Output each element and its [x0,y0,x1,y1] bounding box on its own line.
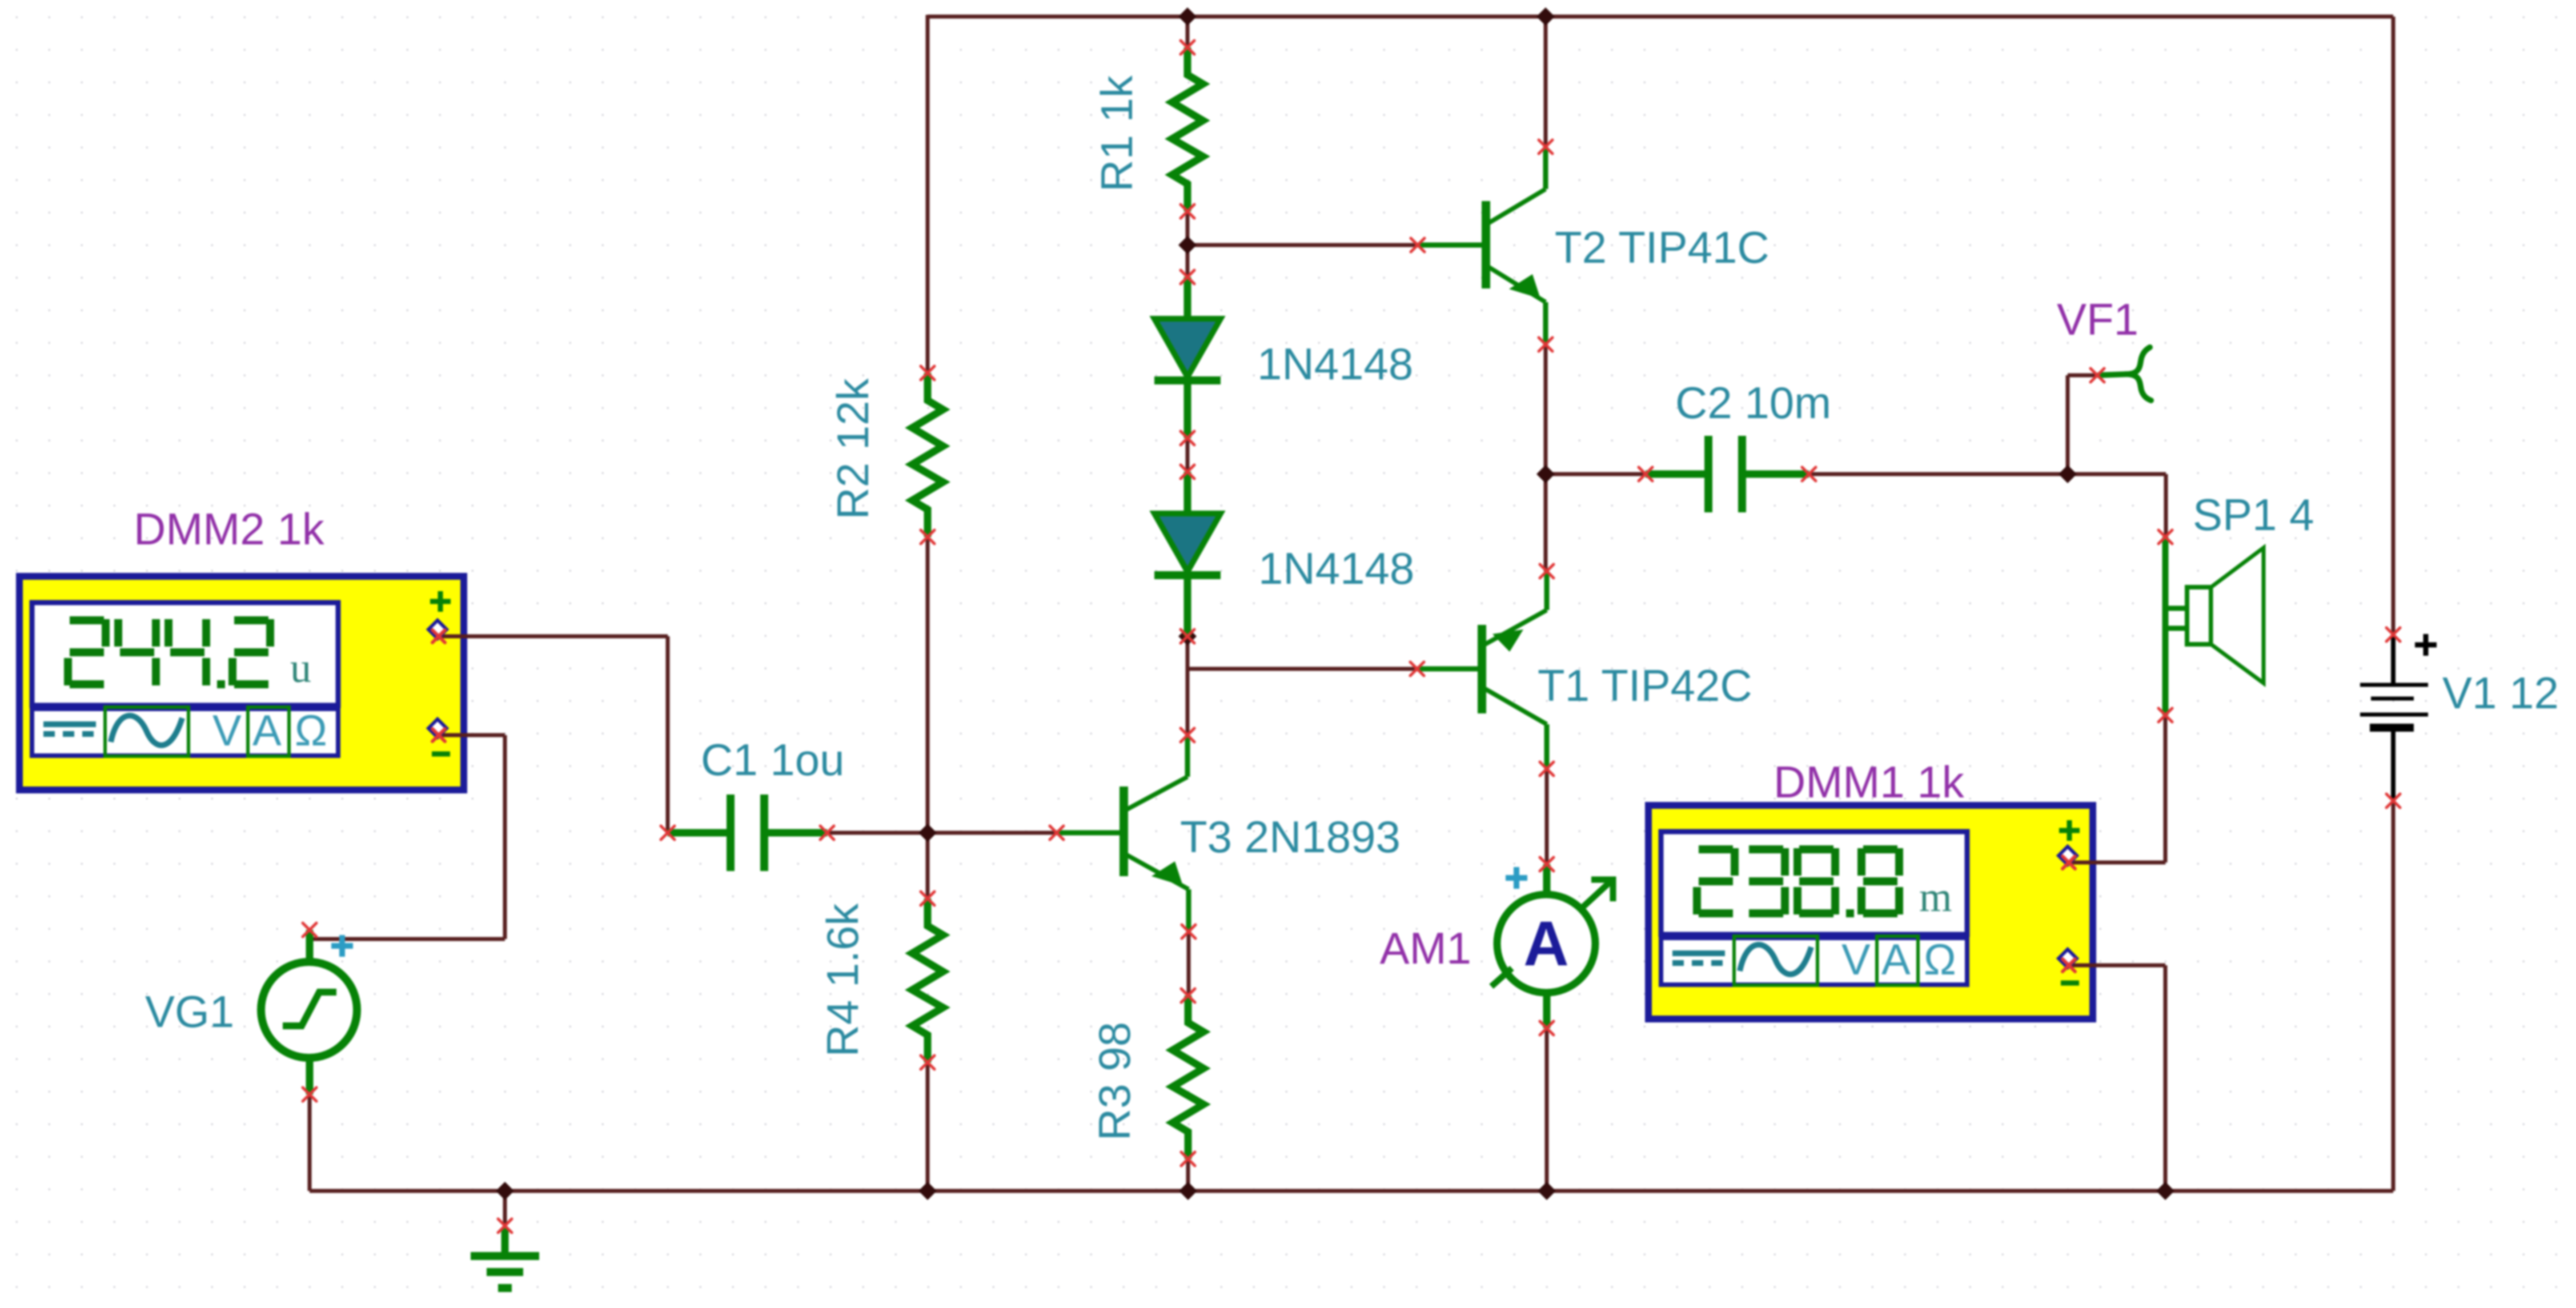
wire C1 to base node [827,831,928,835]
label R1 value [1092,75,1142,192]
label R4 value [817,903,868,1057]
svg-text:R4 1.6k: R4 1.6k [817,903,868,1057]
node ground rail / R4 [918,1182,937,1200]
wire VF1 stub [2068,375,2097,474]
node C2 wire / VF1 [2059,465,2077,483]
label DMM2 [134,504,325,554]
wire R1 to D1 node [1186,211,1190,277]
node C1 / R2 / R4 / T3 base [918,824,937,842]
label VF1 [2057,294,2138,344]
label T3 value [1180,812,1401,862]
wire V1 to bottom rail [2392,801,2396,1191]
svg-text:C1 1ou: C1 1ou [701,735,845,785]
battery V1 [2360,628,2437,808]
wire ground stub [503,1191,507,1225]
svg-text:C2 10m: C2 10m [1675,378,1831,428]
diode D2 1N4148 [1154,465,1221,643]
transistor T3 2N1893 [1050,728,1195,938]
svg-text:m: m [1919,874,1952,921]
label C2 value [1675,378,1831,428]
node top rail / T2 collector [1536,7,1555,26]
wire C2 to speaker [1809,474,2166,537]
svg-text:Ω: Ω [295,707,327,755]
node output / C2 [1536,465,1555,483]
ammeter AM1 [1491,857,1613,1035]
wire node to T2 base [1187,243,1418,247]
diode D1 1N4148 [1154,270,1221,445]
label C1 value [701,735,845,785]
transistor T2 TIP41C [1411,140,1552,351]
wire speaker to DMM1 plus [2075,715,2165,862]
svg-text:R2 12k: R2 12k [828,378,878,519]
wire VG1 to bottom rail [308,1094,312,1191]
wire bias node to T3 base [928,831,1057,835]
wire DMM2 minus to VG1 [310,735,505,939]
resistor R3 [1173,989,1203,1166]
label V1 value [2442,668,2559,718]
node ground rail / AM1 [1538,1182,1556,1200]
speaker SP1 [2158,530,2264,722]
wire R3 to bottom rail [1186,1159,1190,1191]
svg-text:V: V [1841,936,1871,984]
multimeter DMM2 [19,576,474,790]
wire top rail to R2 [926,15,930,373]
wire DMM2 plus to C1 [439,636,668,833]
capacitor C2 [1639,436,1816,512]
ground [471,1219,539,1288]
transistor T1 TIP42C [1410,564,1554,776]
wire R2 to R4 (bias node) [926,537,930,898]
label T2 value [1555,222,1770,272]
resistor R4 [912,892,943,1069]
svg-text:A: A [1881,936,1911,984]
svg-text:1N4148: 1N4148 [1257,339,1413,389]
multimeter DMM1 [1648,805,2102,1019]
label VG1 [145,986,234,1037]
voltage pin VF1 [2091,347,2151,400]
node top rail / R1 [1178,7,1197,26]
label T1 value [1538,660,1752,711]
node R1 / D1 / T2 base [1178,236,1197,254]
svg-text:u: u [290,645,311,692]
svg-text:DMM1 1k: DMM1 1k [1773,757,1965,807]
svg-text:DMM2 1k: DMM2 1k [134,504,325,554]
svg-text:A: A [252,707,282,755]
resistor R2 [912,366,943,544]
wire top rail to V1 [2392,17,2396,635]
wire D2 node down to T3 collector [1186,636,1190,735]
wire R4 to bottom rail [926,1062,930,1191]
wire T1 collector to AM1 [1545,769,1549,864]
label R2 value [828,378,878,519]
svg-text:1N4148: 1N4148 [1258,543,1414,593]
node D2 / T3 collector / T1 base [1178,627,1197,645]
svg-text:R1 1k: R1 1k [1092,75,1142,192]
svg-text:T1 TIP42C: T1 TIP42C [1538,660,1752,711]
label DMM1 [1773,757,1965,807]
label R3 value [1089,1022,1139,1141]
voltage generator VG1 [261,923,357,1101]
label SP1 value [2193,490,2314,540]
svg-text:Ω: Ω [1924,936,1956,984]
wire bottom ground rail [310,1189,2393,1193]
wire AM1 to bottom rail [1545,1028,1549,1191]
label AM1 [1380,923,1471,973]
wire output node to C2 [1546,472,1646,476]
svg-text:V: V [212,707,242,755]
node ground rail / ground [496,1182,514,1200]
capacitor C1 [661,795,834,871]
resistor R1 [1172,41,1203,218]
wire T3 emitter to R3 [1187,932,1191,996]
svg-text:VG1: VG1 [145,986,234,1037]
svg-text:V1 12: V1 12 [2442,668,2559,718]
wire node to T1 base [1187,667,1417,671]
wire DMM1 minus to bottom rail [2075,965,2165,1191]
wire top rail to T2 collector [1544,17,1548,147]
svg-text:VF1: VF1 [2057,294,2138,344]
svg-text:T2 TIP41C: T2 TIP41C [1555,222,1770,272]
wire T2 emitter to T1 emitter (output node) [1544,344,1548,571]
node ground rail / R3 [1179,1182,1197,1200]
svg-text:SP1 4: SP1 4 [2193,490,2314,540]
svg-text:T3 2N1893: T3 2N1893 [1180,812,1401,862]
label D2 value [1258,543,1414,593]
label D1 value [1257,339,1413,389]
svg-text:A: A [1523,909,1568,979]
wire top supply rail [928,15,2393,19]
svg-text:R3 98: R3 98 [1089,1022,1139,1141]
node ground rail / DMM1 minus [2156,1182,2174,1200]
wire D1 to D2 [1186,438,1190,472]
wire top rail to R1 [1186,17,1190,47]
svg-text:AM1: AM1 [1380,923,1471,973]
